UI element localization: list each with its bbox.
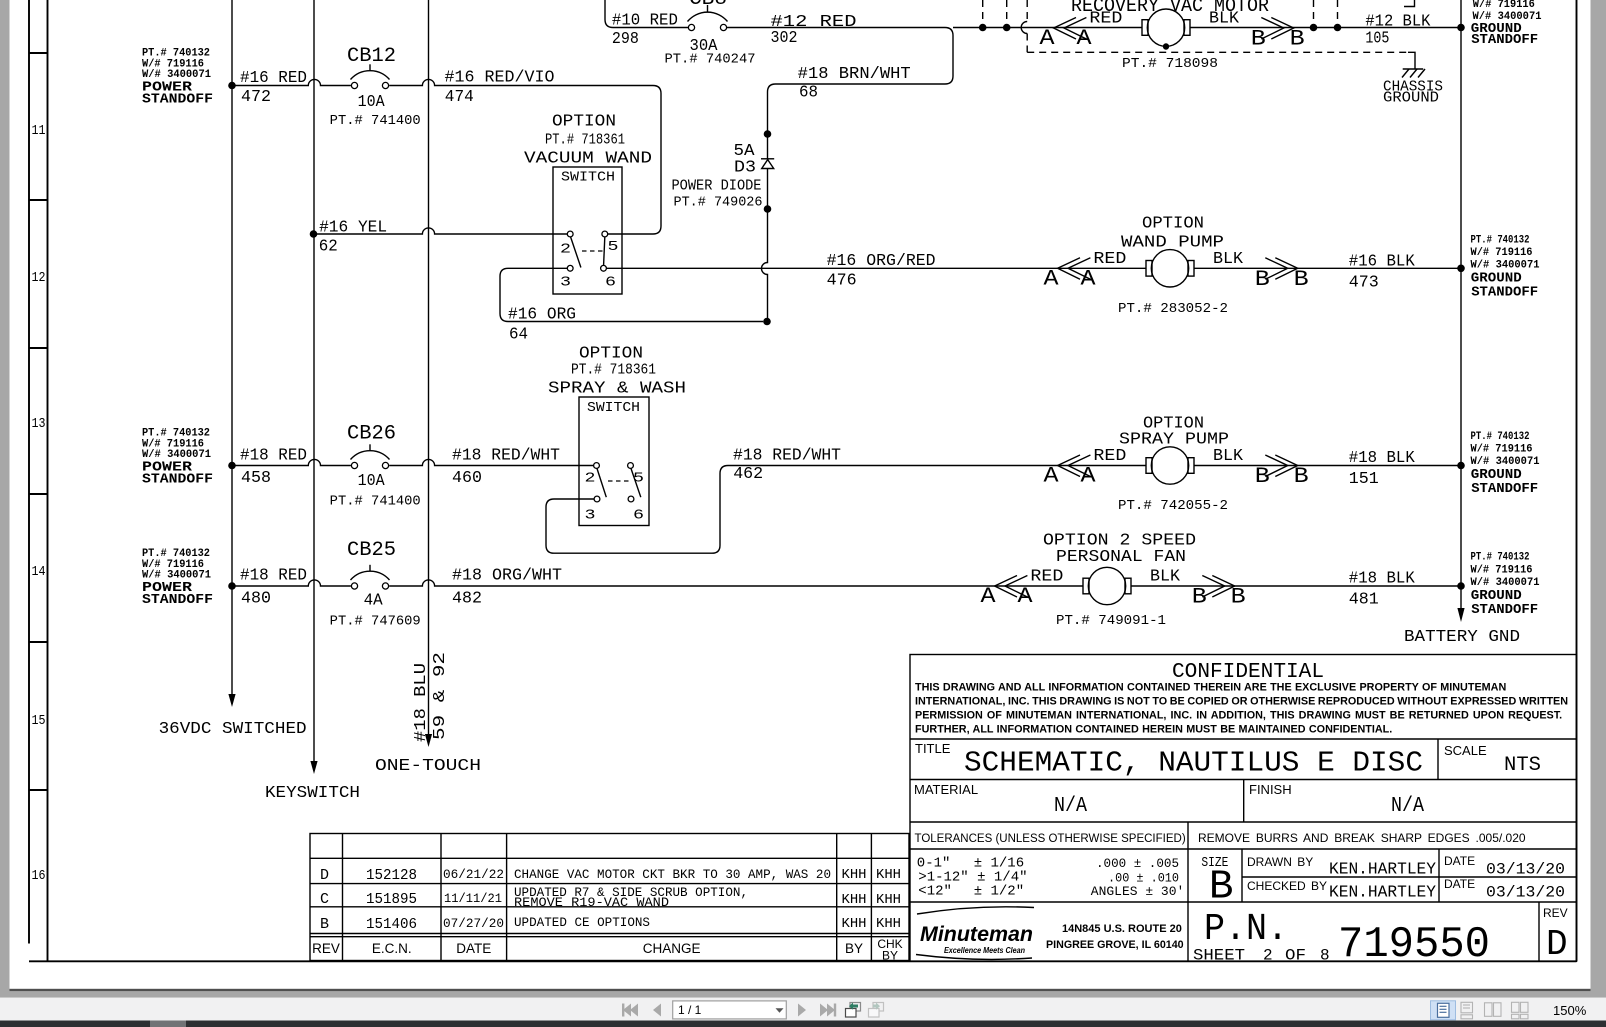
svg-text:STANDOFF: STANDOFF (1471, 32, 1538, 48)
node dot spray pump gnd (1457, 462, 1465, 470)
svg-text:A: A (981, 584, 997, 609)
svg-text:15: 15 (32, 713, 46, 729)
minuteman logo (916, 907, 1034, 960)
wire #12 RED (727, 27, 945, 29)
svg-text:PT.# 740132: PT.# 740132 (1471, 431, 1530, 443)
svg-text:13: 13 (32, 416, 46, 432)
pin 5 spray wash switch (628, 463, 634, 469)
svg-text:DATE: DATE (1444, 877, 1475, 891)
wire #18 RED/WHT to spray switch (389, 459, 593, 465)
wire vac motor to gnd bus (1190, 27, 1461, 29)
dashed connector pin line A2 (1006, 0, 1008, 24)
circuit breaker CB26 10A (351, 444, 390, 468)
svg-text:PT.# 740132: PT.# 740132 (1471, 552, 1530, 564)
svg-text:GROUND: GROUND (1383, 90, 1439, 107)
svg-text:A: A (1077, 26, 1093, 51)
svg-text:151406: 151406 (366, 916, 417, 933)
svg-text:N/A: N/A (1391, 795, 1424, 818)
svg-text:64: 64 (509, 326, 528, 345)
svg-text:480: 480 (241, 590, 271, 609)
svg-text:#18 RED/WHT: #18 RED/WHT (733, 447, 841, 466)
label SHEET 2 OF 8 (1193, 947, 1330, 965)
svg-text:302: 302 (771, 29, 798, 48)
node dot connector B1 (1310, 24, 1318, 32)
connector fragment top right (1404, 0, 1415, 7)
svg-text:PERSONAL FAN: PERSONAL FAN (1056, 548, 1186, 567)
layout icon single page (active) (1431, 1001, 1456, 1020)
svg-text:BY: BY (845, 941, 863, 956)
node dot vac motor gnd (1457, 24, 1465, 32)
ground standoff label block 1 (1471, 0, 1542, 48)
svg-text:12: 12 (32, 270, 46, 286)
pin 2 spray wash switch (594, 463, 600, 469)
svg-text:PT.# 740247: PT.# 740247 (665, 53, 756, 68)
svg-text:STANDOFF: STANDOFF (142, 592, 213, 608)
wire #16 RED CB12 row (232, 79, 351, 85)
layout icon continuous (1461, 1002, 1473, 1019)
svg-text:BLK: BLK (1150, 568, 1181, 587)
node dot CB12 feed (228, 82, 236, 90)
svg-text:719550: 719550 (1338, 920, 1490, 970)
svg-text:298: 298 (612, 30, 639, 49)
dashed connector pin line B1 (1313, 0, 1315, 24)
svg-text:A: A (1044, 464, 1060, 489)
svg-text:2: 2 (560, 242, 571, 258)
wire diode branch vertical (762, 92, 768, 318)
pin 3 vacuum wand switch (567, 265, 573, 271)
svg-text:#18 BLK: #18 BLK (1349, 449, 1416, 468)
switch blade 2-3 vacuum wand (571, 237, 581, 268)
svg-text:STANDOFF: STANDOFF (1471, 602, 1538, 618)
svg-text:CB26: CB26 (347, 423, 396, 446)
svg-text:A: A (1018, 584, 1034, 609)
svg-text:481: 481 (1349, 591, 1379, 610)
arrow keyswitch bus (310, 761, 317, 774)
svg-text:2: 2 (1263, 947, 1273, 965)
connector B-B vac motor (1251, 18, 1305, 52)
bus 36VDC switched vertical (231, 0, 233, 696)
rev B row (320, 915, 901, 933)
svg-text:KEN.HARTLEY: KEN.HARTLEY (1329, 884, 1436, 903)
wire #18 BRN/WHT tap (768, 28, 954, 93)
svg-text:B: B (1231, 585, 1246, 610)
OS taskbar dark strip (0, 1021, 1606, 1027)
svg-text:36VDC SWITCHED: 36VDC SWITCHED (159, 720, 307, 739)
svg-text:A: A (1081, 267, 1097, 292)
toolbar page number box (673, 1001, 787, 1019)
svg-text:.000 ± .005: .000 ± .005 (1096, 856, 1179, 871)
svg-text:B: B (320, 916, 329, 933)
svg-text:PT.# 741400: PT.# 741400 (330, 495, 421, 510)
toolbar last page button (820, 1004, 836, 1017)
sheet border: inner left line (47, 0, 49, 961)
wire #18 RED/WHT from pin 3 around switch (546, 466, 1146, 554)
toolbar prev page button (653, 1004, 661, 1017)
wire #16 ORG/RED pin6 to wand pump (606, 267, 1146, 269)
svg-text:4A: 4A (364, 592, 384, 611)
wire #16 RED/VIO (389, 79, 661, 234)
sheet border: bottom line (29, 960, 1577, 962)
svg-text:472: 472 (241, 88, 271, 107)
pin 3 spray wash switch (594, 496, 600, 502)
svg-text:TOLERANCES (UNLESS OTHERWISE S: TOLERANCES (UNLESS OTHERWISE SPECIFIED) (915, 833, 1186, 845)
svg-text:± 1/2": ± 1/2" (974, 883, 1024, 899)
connector A-A fan (981, 576, 1034, 610)
svg-text:CHANGE: CHANGE (643, 941, 701, 956)
dashed harness boundary left with hop (1026, 0, 1028, 22)
svg-text:Minuteman: Minuteman (920, 922, 1033, 946)
svg-text:DATE: DATE (456, 941, 491, 956)
svg-text:CHANGE VAC MOTOR CKT BKR TO 30: CHANGE VAC MOTOR CKT BKR TO 30 AMP, WAS … (514, 867, 831, 882)
toolbar first page button (622, 1004, 638, 1017)
svg-text:10A: 10A (358, 93, 386, 112)
svg-text:476: 476 (827, 272, 857, 291)
svg-text:462: 462 (733, 465, 763, 484)
power diode D3 5A (761, 159, 774, 169)
toolbar next view icon (disabled) (869, 1003, 884, 1018)
svg-text:<12": <12" (918, 883, 952, 899)
switch spray wash box (579, 397, 649, 526)
svg-text:REMOVE R19-VAC WAND: REMOVE R19-VAC WAND (514, 895, 669, 910)
switch blade 5-6 vacuum wand (604, 237, 605, 265)
wire #16 BLK wand pump to gnd (1194, 267, 1461, 269)
power standoff label block CB26 (142, 428, 213, 488)
svg-text:482: 482 (452, 590, 482, 609)
svg-text:KHH: KHH (842, 916, 867, 932)
svg-text:SWITCH: SWITCH (587, 400, 640, 416)
svg-text:B: B (1192, 585, 1207, 610)
svg-text:A: A (1081, 464, 1097, 489)
svg-text:BLK: BLK (1213, 447, 1244, 466)
svg-text:#16 YEL: #16 YEL (319, 219, 387, 238)
svg-text:INTERNATIONAL, INC. THIS DRAWI: INTERNATIONAL, INC. THIS DRAWING IS NOT … (915, 696, 1568, 708)
svg-text:#18 BRN/WHT: #18 BRN/WHT (798, 65, 911, 84)
svg-text:#18 RED: #18 RED (240, 447, 307, 466)
svg-text:#18 BLU: #18 BLU (412, 663, 431, 742)
pin 5 vacuum wand switch (602, 231, 608, 237)
switch vacuum wand box (553, 167, 622, 294)
rev D row (320, 867, 901, 884)
svg-text:KEN.HARTLEY: KEN.HARTLEY (1329, 861, 1436, 880)
svg-text:D: D (1546, 924, 1568, 965)
svg-text:MATERIAL: MATERIAL (914, 782, 978, 797)
svg-text:OF: OF (1285, 947, 1306, 965)
svg-text:STANDOFF: STANDOFF (142, 471, 213, 487)
node dot #16 YEL tap (310, 230, 318, 238)
svg-text:TITLE: TITLE (915, 741, 951, 756)
wire #16 YEL (314, 228, 568, 234)
svg-text:D3: D3 (734, 159, 756, 178)
switch linkage dashes spray (608, 480, 632, 482)
node dot wand pump gnd (1457, 265, 1465, 273)
svg-text:#16 ORG: #16 ORG (508, 306, 576, 325)
svg-text:03/13/20: 03/13/20 (1486, 884, 1565, 902)
svg-text:C: C (320, 891, 329, 908)
svg-text:460: 460 (452, 469, 482, 488)
confidential paragraph (915, 682, 1568, 736)
svg-text:B: B (1255, 464, 1270, 489)
svg-text:B: B (1255, 267, 1270, 292)
sheet border: right line (1576, 0, 1578, 961)
svg-text:REV: REV (312, 941, 340, 956)
svg-text:62: 62 (319, 238, 338, 257)
connector A-A vac motor (1040, 18, 1093, 52)
svg-text:OPTION: OPTION (1142, 215, 1204, 234)
svg-text:151895: 151895 (366, 891, 417, 908)
pin 2 vacuum wand switch (567, 231, 573, 237)
svg-text:BY: BY (882, 949, 898, 963)
svg-text:#18 RED/WHT: #18 RED/WHT (452, 447, 560, 466)
toolbar next page button (798, 1004, 806, 1017)
svg-text:3: 3 (585, 508, 596, 524)
revision table (310, 834, 909, 961)
svg-text:W/# 719116: W/# 719116 (1471, 247, 1533, 259)
svg-text:KHH: KHH (876, 867, 901, 883)
circuit breaker CB12 10A (351, 64, 390, 88)
svg-text:#16 ORG/RED: #16 ORG/RED (827, 252, 936, 271)
connector B-B fan (1192, 576, 1246, 610)
svg-text:STANDOFF: STANDOFF (1471, 481, 1538, 497)
svg-text:PERMISSION OF MINUTEMAN INTERN: PERMISSION OF MINUTEMAN INTERNATIONAL, I… (915, 710, 1562, 722)
svg-text:#10 RED: #10 RED (612, 12, 678, 31)
viewer toolbar background (0, 998, 1606, 1021)
svg-text:6: 6 (633, 508, 644, 524)
svg-text:03/13/20: 03/13/20 (1486, 861, 1565, 879)
svg-text:1 / 1: 1 / 1 (678, 1003, 702, 1017)
svg-text:E.C.N.: E.C.N. (372, 941, 412, 956)
svg-text:SCALE: SCALE (1444, 743, 1487, 758)
dashed connector pin line A1 (982, 0, 984, 24)
svg-text:RED: RED (1093, 250, 1126, 269)
bus ground standoff vertical right (1460, 0, 1462, 609)
svg-text:Excellence Meets Clean: Excellence Meets Clean (944, 946, 1025, 955)
svg-text:59 & 92: 59 & 92 (431, 652, 450, 740)
circuit breaker CB25 4A (351, 565, 390, 589)
svg-text:PT.# 749026: PT.# 749026 (674, 196, 763, 211)
svg-text:BLK: BLK (1213, 250, 1244, 269)
svg-text:KHH: KHH (876, 916, 901, 932)
wire #18 RED CB26 row (232, 459, 351, 465)
chassis ground symbol (1402, 69, 1425, 78)
svg-text:DRAWN BY: DRAWN BY (1247, 855, 1313, 869)
wire #18 RED CB25 row (232, 580, 351, 586)
layout icon facing (1485, 1003, 1502, 1017)
arrow 36VDC bus (228, 694, 235, 707)
svg-text:PT.# 718361: PT.# 718361 (545, 133, 625, 149)
svg-text:#16 BLK: #16 BLK (1349, 253, 1416, 272)
svg-text:W/# 719116: W/# 719116 (1471, 444, 1533, 456)
svg-text:14: 14 (32, 564, 46, 580)
motor recovery vac (1142, 9, 1190, 46)
svg-text:3: 3 (560, 275, 571, 291)
svg-text:KHH: KHH (842, 867, 867, 883)
svg-text:SCHEMATIC, NAUTILUS E DISC: SCHEMATIC, NAUTILUS E DISC (964, 747, 1423, 780)
svg-text:#18 RED: #18 RED (240, 567, 307, 586)
svg-text:N/A: N/A (1054, 795, 1087, 818)
svg-text:W/# 719116: W/# 719116 (1471, 564, 1533, 576)
svg-text:A: A (1044, 267, 1060, 292)
svg-text:10A: 10A (358, 472, 386, 491)
rev C row (320, 885, 901, 910)
svg-text:RED: RED (1030, 568, 1063, 587)
svg-text:PT.# 747609: PT.# 747609 (330, 615, 421, 630)
svg-text:SWITCH: SWITCH (561, 170, 615, 186)
svg-text:ONE-TOUCH: ONE-TOUCH (375, 757, 481, 776)
svg-text:POWER DIODE: POWER DIODE (672, 178, 762, 195)
wire #10 RED feed from top (605, 0, 688, 28)
svg-text:#16 RED/VIO: #16 RED/VIO (445, 69, 555, 88)
pin 6 spray wash switch (628, 496, 634, 502)
power standoff label block CB12 (142, 48, 213, 108)
node dot CB25 feed (228, 582, 236, 590)
wire #16 ORG from pin 3 (500, 268, 763, 321)
svg-text:KHH: KHH (842, 892, 867, 908)
svg-text:DATE: DATE (1444, 854, 1475, 868)
svg-text:5: 5 (608, 239, 619, 255)
motor spray pump (1146, 447, 1194, 484)
circuit breaker CB8 30A (688, 5, 728, 31)
title block outline (910, 655, 1577, 962)
rev table header (312, 937, 903, 963)
svg-text:PT.# 742055-2: PT.# 742055-2 (1118, 499, 1228, 514)
svg-text:CHECKED BY: CHECKED BY (1247, 879, 1327, 893)
svg-text:OPTION: OPTION (552, 113, 616, 132)
svg-text:PT.# 749091-1: PT.# 749091-1 (1056, 614, 1166, 629)
layout icon facing continuous (1512, 1002, 1529, 1019)
node dot diode to ORG wire (763, 318, 771, 326)
viewer bottom grey gap (0, 991, 1606, 997)
svg-text:A: A (1040, 26, 1056, 51)
svg-text:PT.# 740132: PT.# 740132 (1471, 235, 1530, 247)
svg-text:KHH: KHH (876, 892, 901, 908)
ground standoff label block 3 (1471, 431, 1540, 497)
ground standoff label block 4 (1471, 552, 1540, 618)
svg-text:151: 151 (1349, 470, 1379, 489)
svg-text:BATTERY GND: BATTERY GND (1404, 628, 1520, 647)
dashed connector pin line B2 (1337, 0, 1339, 24)
node dot motor case gnd (1163, 43, 1169, 49)
svg-text:06/21/22: 06/21/22 (443, 867, 504, 882)
svg-text:SHEET: SHEET (1193, 947, 1245, 965)
svg-text:CB12: CB12 (347, 45, 396, 68)
svg-text:PINGREE GROVE, IL 60140: PINGREE GROVE, IL 60140 (1046, 939, 1184, 951)
bus one-touch vertical (428, 0, 430, 736)
svg-text:07/27/20: 07/27/20 (443, 916, 504, 931)
svg-text:11: 11 (32, 123, 46, 139)
svg-text:105: 105 (1365, 30, 1389, 49)
svg-text:#16 RED: #16 RED (240, 69, 307, 88)
node dot connector A1 (979, 24, 987, 32)
svg-text:PT.# 718098: PT.# 718098 (1122, 57, 1218, 72)
svg-text:ANGLES ± 30': ANGLES ± 30' (1091, 884, 1185, 899)
svg-text:THIS DRAWING AND ALL INFORMATI: THIS DRAWING AND ALL INFORMATION CONTAIN… (915, 682, 1506, 694)
svg-text:P.N.: P.N. (1204, 908, 1288, 951)
svg-text:OPTION: OPTION (579, 345, 643, 364)
svg-text:11/11/21: 11/11/21 (444, 891, 502, 906)
svg-text:STANDOFF: STANDOFF (142, 91, 213, 107)
svg-text:VACUUM WAND: VACUUM WAND (524, 150, 652, 169)
node dot diode top (764, 130, 772, 138)
svg-text:W/# 719116: W/# 719116 (1473, 0, 1535, 11)
svg-text:D: D (320, 867, 329, 884)
arrow one-touch bus (425, 734, 432, 747)
node dot diode bottom (764, 205, 772, 213)
svg-text:REMOVE BURRS AND BREAK SHARP E: REMOVE BURRS AND BREAK SHARP EDGES .005/… (1198, 831, 1526, 845)
svg-text:B: B (1290, 27, 1305, 52)
connector B-B wand pump (1255, 258, 1309, 292)
switch linkage dashes vacuum wand (582, 250, 606, 252)
sheet border: outer left line (28, 0, 30, 944)
svg-text:B: B (1209, 865, 1234, 911)
svg-text:6: 6 (605, 275, 616, 291)
svg-text:#18 BLK: #18 BLK (1349, 570, 1416, 589)
motor personal fan (1083, 567, 1131, 604)
switch blade 2-3 spray (597, 469, 606, 498)
chassis ground connection (1408, 52, 1415, 68)
svg-text:PT.# 741400: PT.# 741400 (330, 114, 421, 129)
svg-text:KEYSWITCH: KEYSWITCH (265, 784, 360, 803)
svg-text:FINISH: FINISH (1249, 782, 1292, 797)
arrow battery gnd (1457, 608, 1464, 622)
svg-text:B: B (1294, 267, 1309, 292)
pin 6 vacuum wand switch (601, 265, 607, 271)
ground standoff label block 2 (1471, 235, 1540, 301)
svg-text:PT.# 283052-2: PT.# 283052-2 (1118, 302, 1228, 317)
svg-text:152128: 152128 (366, 867, 417, 884)
svg-text:FURTHER, ALL INFORMATION CONTA: FURTHER, ALL INFORMATION CONTAINED HEREI… (915, 724, 1392, 736)
node dot connector B2 (1334, 24, 1342, 32)
node dot connector A2 (1003, 24, 1011, 32)
svg-text:NTS: NTS (1504, 754, 1541, 777)
connector B-B spray pump (1255, 455, 1309, 489)
svg-text:STANDOFF: STANDOFF (1471, 285, 1538, 301)
node dot fan gnd (1457, 582, 1465, 590)
switch blade 5-6 spray (631, 469, 641, 498)
wire #18 ORG/WHT to fan (389, 580, 1083, 586)
wire #18 BLK spray pump to gnd (1194, 465, 1461, 467)
connector A-A spray pump (1044, 455, 1097, 489)
svg-text:#18 ORG/WHT: #18 ORG/WHT (452, 567, 562, 586)
wire vac motor row (953, 27, 1142, 29)
node dot CB26 feed (228, 462, 236, 470)
dashed harness boundary bottom (1027, 51, 1409, 53)
power standoff label block CB25 (142, 548, 213, 608)
connector A-A wand pump (1044, 258, 1097, 292)
svg-text:473: 473 (1349, 274, 1379, 293)
zone tick marks (29, 53, 48, 790)
svg-text:CB8: CB8 (689, 0, 727, 11)
svg-text:PT.# 718361: PT.# 718361 (571, 363, 656, 379)
svg-text:16: 16 (32, 868, 46, 884)
svg-text:CB25: CB25 (347, 539, 396, 562)
svg-text:14N845 U.S. ROUTE 20: 14N845 U.S. ROUTE 20 (1062, 923, 1182, 935)
svg-text:RECOVERY VAC MOTOR: RECOVERY VAC MOTOR (1071, 0, 1269, 17)
svg-text:458: 458 (241, 469, 271, 488)
svg-text:SPRAY & WASH: SPRAY & WASH (548, 380, 686, 399)
svg-text:B: B (1294, 464, 1309, 489)
svg-text:8: 8 (1320, 947, 1330, 965)
svg-text:RED: RED (1093, 447, 1126, 466)
tolerance rows (917, 856, 1185, 900)
svg-text:BLK: BLK (1209, 10, 1240, 29)
motor wand pump (1146, 250, 1194, 287)
svg-text:474: 474 (445, 88, 474, 107)
wire #18 BLK fan to gnd (1131, 585, 1461, 587)
svg-text:REV: REV (1543, 906, 1568, 920)
page bottom edge shadow (10, 989, 1591, 991)
toolbar previous view icon (846, 1003, 861, 1018)
svg-text:UPDATED CE OPTIONS: UPDATED CE OPTIONS (514, 915, 650, 930)
